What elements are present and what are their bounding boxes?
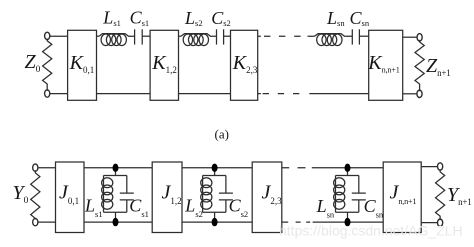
svg-text:Ls1: Ls1 [84, 196, 103, 220]
junction bottom [345, 218, 351, 226]
label Ls2 [184, 8, 203, 28]
terminal bottom-right (a) [417, 90, 422, 97]
resistor Y0 [31, 170, 40, 219]
inverter J2,3 box [252, 162, 282, 233]
svg-text:Cs2: Cs2 [229, 196, 249, 220]
capacitor Cs1 (vertical branch, horizontal plates) [120, 176, 134, 213]
wire K01 to Ls1 [97, 35, 100, 37]
inductor Ls2 [181, 34, 217, 46]
svg-text:Ls1: Ls1 [102, 8, 121, 28]
inductor Ls1 [99, 34, 135, 46]
inverter Kn,n+1 box [369, 30, 403, 100]
inverter K1,2 label [151, 52, 177, 75]
svg-text:Z0: Z0 [25, 51, 41, 75]
terminal top-left (a) [45, 32, 50, 39]
junction top [212, 164, 218, 172]
label Ls2 (b) [184, 196, 203, 220]
inductor Lsn (vertical) [335, 176, 337, 213]
shunt resonator 2 [201, 164, 233, 227]
inverter K2,3 box [231, 30, 258, 100]
svg-text:Ls2: Ls2 [184, 196, 203, 220]
svg-text:Lsn: Lsn [316, 196, 335, 220]
svg-text:https://blog.csdn.net/AG_ZLH: https://blog.csdn.net/AG_ZLH [279, 223, 463, 239]
label Yn+1 [447, 184, 472, 207]
inverter J1,2 label [162, 182, 182, 207]
inductor Ls1 (vertical) [103, 176, 105, 213]
wire bottom (a): K12 to K23 [179, 93, 231, 95]
inverter K0,1 box [68, 30, 97, 100]
junction bottom [113, 218, 119, 226]
node Z0 label [25, 51, 41, 75]
stub top [115, 168, 117, 176]
junction top [113, 164, 119, 172]
resistor Zn+1 [415, 40, 424, 91]
wire source-bottom to J01 [38, 221, 56, 223]
inverter J0,1 label [59, 182, 79, 207]
wire source-top to K01 [50, 35, 68, 37]
svg-text:Cs1: Cs1 [130, 8, 150, 28]
capacitor Csn [352, 29, 368, 44]
dashed wire top (b) [282, 167, 383, 169]
inverter Jn,n+1 label [390, 182, 417, 207]
label Lsn (b) [316, 196, 335, 220]
terminal top-left (b) [33, 164, 38, 171]
svg-text:Ls2: Ls2 [184, 8, 203, 28]
svg-text:Lsn: Lsn [326, 8, 345, 28]
stub bottom [115, 212, 117, 222]
resistor Yn+1 [436, 169, 445, 220]
wire J12 to J23 bottom [182, 221, 252, 223]
resistor Z0 [43, 39, 52, 91]
label Zn+1 [426, 55, 451, 78]
svg-text:Cs2: Cs2 [211, 8, 231, 28]
capacitor Cs2 [217, 29, 231, 44]
label Csn [350, 8, 370, 28]
capacitor Cs2 [219, 176, 233, 213]
inverter J2,3 label [262, 182, 283, 207]
label Cs1 (b) [129, 196, 149, 220]
inverter Kn,n+1 label [367, 52, 399, 75]
svg-text:Cs1: Cs1 [129, 196, 149, 220]
inverter K0,1 label [69, 52, 95, 75]
shunt resonator n [334, 164, 366, 227]
svg-text:Csn: Csn [350, 8, 370, 28]
shunt resonator 1 [102, 164, 134, 227]
svg-text:Yn+1: Yn+1 [447, 184, 472, 207]
svg-text:Zn+1: Zn+1 [426, 55, 451, 78]
caption (a) [215, 127, 229, 142]
wire bottom (a): K01 to K12 [97, 93, 151, 95]
label Cs1 [130, 8, 150, 28]
junction bottom [212, 218, 218, 226]
loop [104, 176, 127, 213]
watermark [279, 223, 463, 239]
wire Jn to load top (b) [421, 166, 437, 168]
wire source-top to J01 [38, 167, 56, 169]
wire Kn to load top (a) [403, 36, 417, 38]
terminal top-right (b) [438, 163, 443, 170]
junction top [345, 164, 351, 172]
label Lsn [326, 8, 345, 28]
svg-text:(a): (a) [215, 127, 229, 142]
svg-text:Y0: Y0 [13, 182, 29, 206]
inverter K1,2 box [150, 30, 178, 100]
wire Jn to load bottom (b) [421, 222, 437, 224]
terminal top-right (a) [417, 34, 422, 41]
dashed wire bottom (b) [282, 221, 383, 223]
inductor Ls2 (vertical) [202, 176, 204, 213]
terminal bottom-left (b) [33, 218, 38, 225]
inverter J1,2 box [152, 162, 182, 233]
wire J12 to J23 top [182, 167, 252, 169]
label Cs2 [211, 8, 231, 28]
inductor Lsn [315, 34, 353, 46]
inverter J0,1 box [56, 162, 85, 233]
wire Kn to load bottom (a) [403, 93, 417, 95]
capacitor Csn [352, 176, 366, 213]
terminal bottom-left (a) [45, 90, 50, 97]
dashed wire bottom (a) [258, 93, 369, 95]
dashed wire top (a) [258, 35, 315, 37]
label Ls1 (b) [84, 196, 103, 220]
wire J01 to J12 top [84, 167, 152, 169]
label Cs2 (b) [229, 196, 249, 220]
label Ls1 [102, 8, 121, 28]
inverter Jn,n+1 box [383, 162, 421, 233]
node Y0 label [13, 182, 29, 206]
wire J01 to J12 bottom [84, 221, 152, 223]
label Csn (b) [364, 196, 384, 220]
wire source-bottom to K01 [50, 93, 68, 95]
wire K12 to Ls2 [179, 35, 182, 37]
capacitor Cs1 [135, 29, 151, 44]
inverter K2,3 label [232, 52, 258, 75]
terminal bottom-right (b) [438, 219, 443, 226]
svg-text:Csn: Csn [364, 196, 384, 220]
